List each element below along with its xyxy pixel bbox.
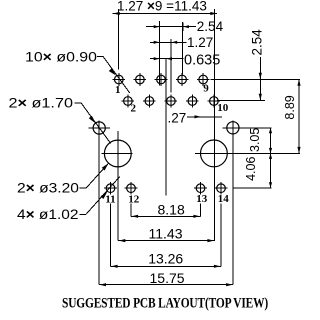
- pad pin4: [143, 95, 156, 108]
- pad pin14: [215, 182, 228, 195]
- svg-text:12: 12: [128, 193, 140, 205]
- svg-text:11.43: 11.43: [149, 225, 183, 241]
- pad14 row extension line right: [233, 187, 271, 189]
- pad14 extension line: [220, 204, 222, 267]
- svg-text:14: 14: [218, 193, 230, 205]
- pin number 9: [203, 83, 209, 95]
- pad pin3: [134, 73, 147, 86]
- pad11 extension line: [110, 204, 112, 267]
- right 1.70 hole vertical extension to 15.75: [232, 121, 234, 285]
- svg-text:1.27: 1.27: [187, 35, 213, 50]
- svg-text:1.27 ×9 =11.43: 1.27 ×9 =11.43: [117, 0, 207, 14]
- left column extension line: [117, 131, 119, 241]
- svg-text:2: 2: [131, 103, 137, 115]
- left 1.70 hole vertical extension to 15.75: [98, 121, 100, 285]
- svg-text:SUGGESTED PCB LAYOUT(TOP VIEW): SUGGESTED PCB LAYOUT(TOP VIEW): [62, 296, 268, 312]
- pin1 extension line: [117, 9, 119, 70]
- pin number 2: [131, 103, 137, 115]
- pin number 11: [105, 193, 115, 205]
- vertical dimension 3.05: [248, 128, 272, 154]
- svg-text:13: 13: [196, 193, 208, 205]
- pin7 extension line: [181, 22, 183, 75]
- svg-text:2.54: 2.54: [250, 29, 265, 56]
- svg-text:15.75: 15.75: [150, 270, 185, 286]
- pad pin1: [113, 73, 126, 86]
- svg-text:9: 9: [203, 83, 209, 95]
- label 4x dia1.02: [17, 207, 79, 222]
- leader to left mounting hole: [80, 163, 109, 188]
- title SUGGESTED PCB LAYOUT(TOP VIEW): [62, 296, 268, 312]
- leader to pad11: [80, 177, 120, 215]
- right mounting hole 3.20: [201, 140, 228, 167]
- vertical dimension 8.89 right: [283, 79, 301, 153]
- pad12 extension line: [130, 204, 132, 217]
- pin6 extension line: [170, 39, 172, 93]
- dimension 13.26: [111, 250, 222, 268]
- pad pin12: [125, 182, 138, 195]
- leader to pin1: [97, 56, 130, 93]
- right column extension line (pin10 / right hole): [214, 9, 216, 241]
- vertical dimension 4.06: [244, 153, 272, 187]
- pad pin10: [208, 95, 221, 108]
- svg-text:10× ø0.90: 10× ø0.90: [25, 50, 97, 65]
- dimension 11.43 bottom: [118, 225, 214, 242]
- pin5 extension line: [159, 21, 161, 85]
- dimension 15.75: [99, 270, 233, 286]
- pad pin9: [197, 73, 210, 86]
- left 1.70 hole: [89, 122, 110, 134]
- label 10x dia0.90: [25, 50, 97, 65]
- pin number 1: [115, 84, 121, 96]
- pad pin8: [186, 95, 199, 108]
- dimension .27 with arrow: [168, 111, 223, 126]
- svg-text:2.54: 2.54: [197, 19, 224, 34]
- dimension 1.27 (horizontal, pin5 to pin6): [150, 35, 213, 50]
- pin10 row extension line right: [217, 99, 265, 101]
- pad pin2: [122, 95, 135, 108]
- mounting hole center extension line right: [195, 152, 300, 154]
- svg-text:2× ø1.70: 2× ø1.70: [9, 96, 74, 111]
- right 1.70 hole horizontal extension to 3.05: [222, 127, 271, 129]
- pin number 10: [217, 102, 229, 114]
- svg-text:4× ø1.02: 4× ø1.02: [17, 207, 79, 222]
- pad13 extension line: [200, 204, 202, 217]
- top dimension line 11.43 span: [113, 12, 218, 15]
- pin number 12: [128, 193, 140, 205]
- svg-text:1: 1: [115, 84, 121, 96]
- pin9 row extension line right: [211, 78, 301, 80]
- svg-text:.27: .27: [168, 111, 187, 126]
- pad pin6: [165, 95, 178, 108]
- svg-text:0.635: 0.635: [184, 53, 220, 69]
- pad pin11: [104, 182, 117, 195]
- label 2x dia3.20: [17, 181, 79, 196]
- centerline: [165, 59, 167, 196]
- pin number 14: [218, 193, 230, 205]
- svg-text:8.89: 8.89: [283, 95, 297, 119]
- leader to left 1.70 hole: [75, 103, 111, 144]
- pad pin13: [194, 182, 207, 195]
- pad pin5: [155, 73, 168, 86]
- right 1.70 hole: [227, 122, 239, 134]
- pad pin7: [176, 73, 189, 86]
- svg-text:13.26: 13.26: [148, 250, 183, 266]
- top dimension 1.27x9=11.43 text: [117, 0, 207, 14]
- dimension 2.54 (horizontal, pin5 to pin7): [146, 19, 224, 34]
- svg-text:10: 10: [217, 102, 229, 114]
- vertical dimension 2.54 right: [250, 29, 265, 101]
- left mounting hole 3.20: [102, 140, 133, 167]
- dimension 0.635 (horizontal, pin5 to centerline): [150, 53, 220, 69]
- svg-text:4.06: 4.06: [244, 157, 258, 181]
- pin number 13: [196, 193, 208, 205]
- svg-text:3.05: 3.05: [248, 128, 262, 152]
- svg-text:2× ø3.20: 2× ø3.20: [17, 181, 79, 196]
- dimension 8.18: [131, 201, 201, 218]
- label 2x dia1.70: [9, 96, 74, 111]
- svg-text:8.18: 8.18: [158, 201, 185, 217]
